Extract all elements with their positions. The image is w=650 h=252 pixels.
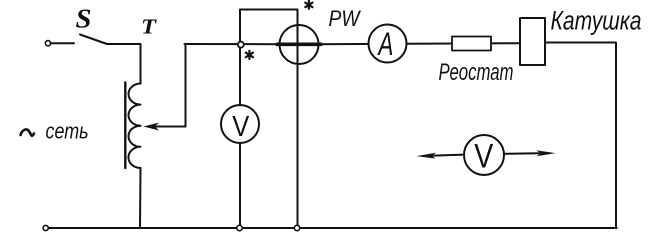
- switch S blade: [80, 35, 107, 45]
- V2 left arrowhead: [417, 153, 437, 159]
- wire: V2 right arrow line: [504, 152, 540, 155]
- wattmeter PW current coil thick bar: [277, 42, 321, 46]
- node: bottom rail junction of wattmeter branch: [294, 225, 299, 230]
- node: bottom-left input terminal: [43, 225, 48, 230]
- wire: coil to right-side vertical and down: [545, 43, 616, 229]
- wattmeter asterisk marker bottom: [246, 51, 253, 59]
- wire: top-left terminal to switch: [51, 42, 74, 44]
- wattmeter PW circle: [280, 25, 319, 64]
- svg-text:Катушка: Катушка: [551, 6, 642, 36]
- wire: V2 left arrow line: [430, 155, 464, 156]
- wire: transformer bottom lead to bottom rail: [139, 168, 142, 228]
- svg-text:сеть: сеть: [46, 119, 89, 144]
- wire: main wire from wattmeter to rheostat, behind ammeter: [318, 43, 520, 44]
- svg-text:S: S: [76, 4, 92, 34]
- node: bottom rail junction of voltmeter branch: [237, 225, 242, 230]
- wire: wattmeter voltage coil loop and voltmeter branch: [240, 10, 298, 229]
- svg-text:Реостат: Реостат: [439, 59, 514, 86]
- wire: tap vertical up to main wire: [185, 44, 187, 127]
- ammeter A circle: [369, 25, 407, 63]
- voltmeter V2 circle: [464, 135, 504, 175]
- voltmeter V1 circle: [221, 105, 259, 143]
- transformer T winding: [128, 84, 140, 169]
- transformer core bar: [124, 83, 126, 169]
- wire: main top wire from tap to wattmeter: [185, 43, 281, 45]
- V2 right arrowhead: [536, 150, 556, 156]
- wattmeter asterisk marker top: [305, 1, 312, 9]
- mains tilde symbol: [21, 129, 35, 135]
- inductor coil Katushka body: [520, 18, 545, 65]
- svg-text:V: V: [232, 111, 250, 143]
- svg-text:A: A: [377, 26, 393, 62]
- node: junction on main wire: [238, 42, 244, 48]
- transformer tap arrowhead: [144, 123, 160, 131]
- svg-text:V: V: [474, 138, 493, 176]
- svg-text:T: T: [141, 15, 157, 39]
- node: top-left input terminal: [45, 41, 50, 46]
- wire: switch to transformer top lead: [107, 44, 141, 84]
- wire: bottom rail: [46, 227, 617, 229]
- resistor rheostat body: [452, 37, 491, 51]
- svg-text:PW: PW: [329, 6, 362, 31]
- transformer tap arrow wire: [156, 126, 186, 128]
